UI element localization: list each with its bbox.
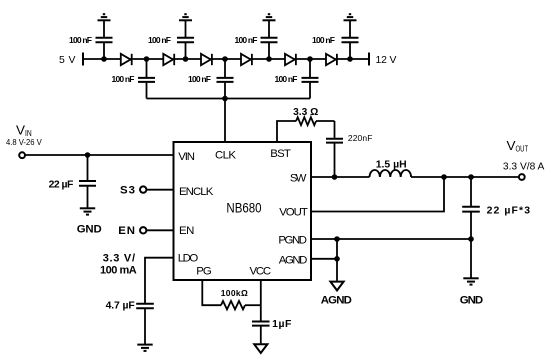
svg-text:12 V: 12 V (376, 55, 397, 66)
svg-text:VCC: VCC (250, 265, 272, 277)
svg-text:100 nF: 100 nF (148, 35, 171, 45)
svg-text:LDO: LDO (178, 253, 199, 265)
svg-text:OUT: OUT (516, 145, 529, 154)
svg-text:VOUT: VOUT (279, 207, 308, 219)
svg-text:100kΩ: 100kΩ (221, 288, 248, 298)
svg-text:1.5 µH: 1.5 µH (376, 159, 407, 170)
svg-text:NB680: NB680 (226, 201, 261, 216)
svg-text:100 nF: 100 nF (112, 74, 135, 84)
svg-text:AGND: AGND (321, 294, 352, 306)
svg-text:22 µF*3: 22 µF*3 (487, 205, 531, 216)
svg-text:220nF: 220nF (348, 133, 373, 143)
svg-text:100 nF: 100 nF (69, 35, 92, 45)
svg-text:100 nF: 100 nF (312, 35, 335, 45)
svg-text:PG: PG (196, 265, 212, 277)
svg-text:CLK: CLK (215, 150, 236, 162)
svg-text:100 nF: 100 nF (275, 74, 298, 84)
svg-text:1µF: 1µF (272, 319, 291, 330)
svg-text:S3: S3 (120, 184, 135, 196)
svg-text:IN: IN (25, 129, 32, 138)
svg-text:GND: GND (77, 223, 102, 235)
svg-text:3.3 Ω: 3.3 Ω (293, 107, 318, 118)
svg-text:VIN: VIN (178, 151, 195, 163)
svg-text:EN: EN (118, 225, 135, 237)
svg-text:ENCLK: ENCLK (179, 186, 214, 198)
svg-text:4.8 V-26 V: 4.8 V-26 V (6, 138, 42, 147)
svg-text:BST: BST (270, 148, 291, 160)
svg-text:100 mA: 100 mA (100, 264, 137, 276)
svg-text:AGND: AGND (279, 254, 308, 266)
svg-text:22 µF: 22 µF (49, 180, 74, 191)
svg-text:4.7 µF: 4.7 µF (106, 301, 135, 312)
svg-text:GND: GND (460, 294, 483, 306)
svg-text:3.3 V/8 A: 3.3 V/8 A (503, 162, 545, 173)
svg-text:100 nF: 100 nF (235, 35, 258, 45)
svg-text:SW: SW (290, 173, 307, 185)
svg-text:3.3 V/: 3.3 V/ (103, 253, 135, 265)
svg-text:PGND: PGND (278, 234, 307, 246)
svg-text:5 V: 5 V (59, 55, 75, 66)
svg-text:100 nF: 100 nF (188, 74, 211, 84)
svg-text:EN: EN (179, 225, 194, 237)
